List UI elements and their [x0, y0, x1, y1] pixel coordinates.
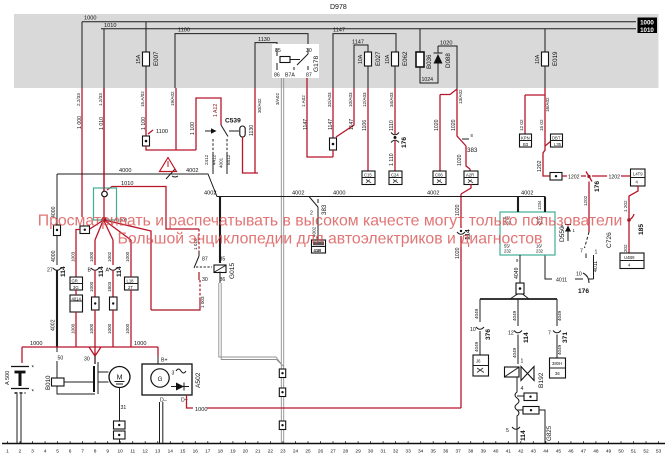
wire 1020 to box [457, 150, 470, 171]
connector 114 B [88, 240, 106, 334]
svg-text:19: 19 [230, 449, 236, 455]
svg-text:10: 10 [118, 449, 124, 455]
svg-text:13: 13 [155, 449, 161, 455]
svg-text:10A: 10A [535, 54, 541, 64]
lamp box E1 [362, 171, 375, 185]
svg-text:15.A/02: 15.A/02 [140, 91, 145, 107]
connector 371 [548, 331, 569, 359]
svg-text:4002: 4002 [427, 191, 439, 197]
connector 114 bottom [506, 427, 527, 441]
svg-text:17: 17 [205, 449, 211, 455]
wire 1202 mid [562, 175, 586, 181]
svg-text:1000: 1000 [640, 19, 654, 26]
svg-text:1 110: 1 110 [389, 153, 395, 166]
svg-text:176: 176 [594, 181, 601, 192]
svg-text:9: 9 [516, 258, 519, 263]
switch C539 [205, 118, 245, 138]
svg-text:4: 4 [44, 449, 47, 455]
switch C726 [580, 232, 613, 262]
svg-text:176: 176 [578, 288, 589, 295]
svg-text:M: M [117, 375, 123, 382]
svg-text:37: 37 [456, 449, 462, 455]
fuse E019 [535, 29, 559, 88]
splice box wavy 2 [517, 407, 545, 444]
svg-text:34: 34 [418, 449, 424, 455]
svg-text:1202: 1202 [537, 160, 543, 172]
wire 1010 link [107, 181, 199, 250]
svg-text:33: 33 [405, 449, 411, 455]
svg-text:GR: GR [72, 279, 78, 284]
relay G178 [272, 44, 320, 79]
svg-text:21: 21 [255, 449, 261, 455]
svg-text:1000: 1000 [125, 251, 130, 262]
svg-text:50: 50 [58, 356, 64, 362]
wire 1202 jog [537, 160, 550, 176]
component B036 [416, 52, 433, 69]
wire 4001 thick [219, 197, 221, 264]
splice 1147 [330, 138, 337, 157]
svg-text:376: 376 [485, 329, 492, 340]
svg-text:DBT: DBT [552, 136, 561, 141]
battery A500 [5, 365, 35, 396]
svg-text:J6: J6 [476, 359, 481, 364]
svg-text:383: 383 [467, 147, 478, 154]
svg-text:114: 114 [116, 266, 123, 277]
connector 114 mid [457, 229, 472, 240]
svg-text:27: 27 [330, 449, 336, 455]
fuse E062 [385, 51, 409, 88]
svg-text:A 500: A 500 [5, 371, 11, 385]
svg-text:32: 32 [393, 449, 399, 455]
svg-text:3G: 3G [73, 285, 79, 290]
svg-text:114: 114 [523, 332, 530, 343]
band background [14, 14, 659, 88]
svg-text:14: 14 [168, 449, 174, 455]
svg-text:L4T9: L4T9 [633, 172, 643, 177]
svg-text:1020: 1020 [434, 119, 440, 131]
svg-text:1100: 1100 [178, 28, 190, 34]
svg-text:46: 46 [568, 449, 574, 455]
wire 4049 drop 376 [474, 299, 480, 322]
relay B010 [45, 375, 95, 394]
svg-text:31: 31 [380, 449, 386, 455]
wire 4049 Y split [510, 294, 529, 299]
svg-text:B192: B192 [538, 372, 545, 388]
svg-text:52: 52 [643, 449, 649, 455]
wire 1202 to 185 [623, 186, 638, 256]
svg-text:176: 176 [401, 137, 408, 148]
svg-text:4: 4 [521, 386, 524, 392]
svg-text:24: 24 [293, 449, 299, 455]
splice on gray pair 2 [279, 388, 285, 397]
lamp box E3 [433, 171, 446, 185]
wire B036 feed [419, 29, 421, 52]
starter solenoid contact [84, 356, 109, 394]
svg-text:4000: 4000 [119, 168, 131, 174]
wire 1000 red drop [76, 88, 83, 217]
wire 50 B010 [57, 347, 63, 378]
svg-text:31: 31 [121, 405, 127, 411]
wire 31 motor ground [120, 388, 127, 422]
wire 1020 split [440, 89, 457, 171]
svg-text:1000: 1000 [195, 407, 207, 413]
splice boxes motor [114, 421, 126, 443]
splice box col1 [54, 225, 61, 236]
wire 1147 drop a [327, 88, 334, 138]
svg-text:47: 47 [581, 449, 587, 455]
svg-text:371: 371 [562, 332, 569, 343]
svg-text:1 003: 1 003 [200, 296, 205, 308]
svg-text:114: 114 [98, 266, 105, 277]
svg-text:C539: C539 [225, 118, 241, 125]
svg-text:114: 114 [60, 266, 67, 277]
wire 4049 D550 out [514, 255, 520, 283]
battery ground wires [17, 394, 21, 443]
bus 1147 a [333, 28, 396, 88]
wire 1000 drop left [81, 22, 83, 88]
wire E019 out split [519, 88, 551, 170]
wire col2 down [75, 290, 77, 347]
box 376 [473, 355, 489, 376]
wire 1106 drop [362, 88, 368, 171]
svg-text:185: 185 [638, 224, 645, 235]
svg-text:40: 40 [493, 449, 499, 455]
svg-text:4049: 4049 [512, 310, 517, 321]
svg-text:D–: D– [160, 398, 167, 404]
ecu D550 [500, 212, 566, 255]
wire D550 pin45 [517, 197, 519, 213]
svg-text:G: G [158, 376, 163, 383]
svg-text:29: 29 [355, 449, 361, 455]
svg-text:16/A02: 16/A02 [545, 97, 550, 112]
connector 176 top [389, 133, 408, 172]
svg-text:7: 7 [81, 449, 84, 455]
relay G015 [194, 229, 236, 283]
connector 114 right [508, 331, 530, 365]
svg-text:B036: B036 [426, 54, 433, 69]
svg-text:4002: 4002 [521, 191, 533, 197]
svg-text:45: 45 [556, 449, 562, 455]
svg-text:12: 12 [508, 331, 514, 337]
svg-text:4049: 4049 [557, 344, 562, 355]
svg-text:G015: G015 [229, 263, 236, 279]
svg-text:1 A02: 1 A02 [301, 95, 306, 107]
svg-text:4049: 4049 [474, 341, 479, 352]
bus 1000 [82, 16, 636, 22]
svg-text:10/A03: 10/A03 [348, 92, 353, 107]
svg-text:15 02: 15 02 [539, 119, 544, 131]
svg-text:4002: 4002 [51, 319, 57, 331]
box 185 [620, 253, 644, 269]
svg-text:1010: 1010 [104, 23, 116, 29]
svg-text:34/A03: 34/A03 [389, 92, 394, 107]
splice on gray pair 1 [279, 369, 285, 378]
svg-text:1147: 1147 [352, 39, 364, 45]
wire 4000 col1 [51, 174, 57, 225]
svg-text:D088: D088 [445, 53, 452, 68]
splice star 1000 [89, 197, 151, 310]
splice on gray pair 3 [279, 421, 285, 430]
svg-text:232: 232 [504, 249, 512, 254]
wire loop 1024 [420, 64, 438, 84]
splice box left [76, 226, 90, 277]
svg-text:1010: 1010 [121, 181, 133, 187]
svg-text:1000: 1000 [89, 281, 94, 292]
svg-text:B7A: B7A [285, 73, 295, 79]
svg-text:1000: 1000 [125, 323, 130, 334]
splice box 4049 [516, 283, 524, 294]
svg-text:1803: 1803 [107, 281, 112, 292]
svg-text:12/A03: 12/A03 [362, 92, 367, 107]
gray pair 3/A02 [275, 78, 284, 443]
fuse E027 [358, 51, 382, 66]
box col5 [125, 240, 139, 347]
wire D+ out [181, 395, 193, 408]
svg-text:4014: 4014 [72, 297, 82, 302]
wire 1010 drop left [103, 29, 105, 88]
svg-text:30: 30 [306, 48, 312, 54]
wire 4049 drop 114 [512, 299, 518, 326]
bus 1147 b [352, 39, 368, 88]
svg-text:42: 42 [518, 449, 524, 455]
wire 1003 G015 out [151, 280, 205, 310]
svg-text:E027: E027 [375, 51, 382, 66]
svg-text:8412: 8412 [226, 154, 231, 165]
svg-text:232: 232 [536, 249, 544, 254]
wire B+ alternator [158, 347, 168, 364]
svg-text:87: 87 [306, 73, 312, 79]
wire 1110 drop [389, 88, 395, 134]
wire 1130 to C539 [243, 88, 263, 173]
svg-text:85: 85 [220, 257, 226, 263]
svg-text:4002: 4002 [186, 168, 198, 174]
connector 376 [470, 327, 492, 355]
svg-text:1020: 1020 [455, 247, 461, 259]
svg-text:A2R: A2R [466, 173, 474, 178]
svg-text:50: 50 [618, 449, 624, 455]
svg-text:1000: 1000 [107, 323, 112, 334]
diode D088 [434, 46, 453, 68]
wire 8412 dashed [219, 139, 232, 174]
switch 383-2 [309, 197, 328, 241]
svg-text:26: 26 [318, 449, 324, 455]
svg-text:32/A03: 32/A03 [327, 92, 332, 107]
svg-text:1234: 1234 [537, 200, 542, 210]
wire 1020 long down [455, 184, 471, 228]
svg-text:8: 8 [471, 133, 474, 138]
splice box wavy 1 [517, 393, 537, 401]
svg-text:1130: 1130 [249, 125, 255, 136]
svg-text:10A: 10A [385, 54, 391, 64]
wire D- ground [160, 398, 167, 444]
svg-text:51: 51 [631, 449, 637, 455]
svg-text:Просматривать и распечатывать: Просматривать и распечатывать в высоком … [38, 213, 623, 230]
wire col1 mid [51, 236, 57, 266]
wire 4049 drop 371 [557, 299, 562, 326]
svg-text:1 000: 1 000 [77, 116, 83, 129]
svg-text:5: 5 [56, 449, 59, 455]
svg-text:C726: C726 [606, 232, 613, 248]
box col2 a [70, 277, 83, 290]
svg-text:35: 35 [431, 449, 437, 455]
svg-text:49: 49 [606, 449, 612, 455]
motor M [109, 367, 130, 388]
svg-text:4002: 4002 [292, 191, 304, 197]
svg-text:4001: 4001 [219, 157, 224, 168]
svg-text:1000: 1000 [30, 341, 42, 347]
wire 1202 C726 [583, 182, 589, 233]
svg-text:G825: G825 [546, 425, 553, 441]
wire 1020 right [451, 89, 463, 133]
wire 1202 right [592, 175, 631, 181]
splice 176 [586, 172, 601, 193]
wire 4011 rail [545, 255, 583, 284]
svg-text:11: 11 [130, 449, 135, 455]
rail 1000 D+ [195, 407, 461, 413]
svg-text:B3: B3 [523, 142, 529, 147]
svg-text:1000: 1000 [84, 16, 96, 22]
connector 114 27 [47, 266, 67, 277]
svg-text:1020: 1020 [440, 41, 452, 47]
box 1202 a [520, 134, 532, 147]
svg-text:4049: 4049 [512, 347, 517, 358]
connector 176 bottom [576, 272, 589, 296]
rail 4049 [480, 298, 557, 300]
fuse E007 [136, 51, 160, 66]
svg-text:30: 30 [368, 449, 374, 455]
teal highlight box [94, 188, 117, 220]
svg-text:30: 30 [84, 357, 90, 363]
svg-text:1000: 1000 [89, 251, 94, 262]
svg-text:1 A12: 1 A12 [213, 104, 219, 117]
svg-text:13/A02: 13/A02 [458, 89, 463, 104]
svg-text:G178: G178 [313, 56, 320, 72]
svg-text:15: 15 [180, 449, 186, 455]
svg-text:53: 53 [656, 449, 662, 455]
wire 1020 to rail [455, 236, 461, 408]
svg-text:48: 48 [593, 449, 599, 455]
svg-text:41: 41 [506, 449, 512, 455]
wire G178 87 drop [301, 78, 333, 157]
svg-text:27: 27 [47, 268, 53, 274]
svg-text:1147: 1147 [333, 28, 345, 34]
svg-text:23: 23 [280, 449, 286, 455]
gray pair G015 out [219, 283, 284, 367]
svg-text:4412: 4412 [212, 154, 217, 165]
bus 1130 [255, 37, 277, 88]
svg-text:9: 9 [106, 449, 109, 455]
wire 4002 thick col1 [51, 270, 58, 347]
svg-text:*: * [32, 365, 35, 372]
wire 1100 bus drop [170, 88, 176, 150]
svg-text:1000: 1000 [89, 323, 94, 334]
svg-text:B+: B+ [161, 358, 168, 364]
svg-text:2: 2 [19, 449, 22, 455]
svg-text:4011: 4011 [593, 261, 599, 272]
splice 1100 [143, 129, 169, 146]
lamp box E2 [389, 171, 402, 185]
svg-text:18: 18 [218, 449, 224, 455]
rail 1000 bottom [22, 341, 158, 347]
svg-text:380H: 380H [552, 361, 562, 366]
svg-text:20: 20 [243, 449, 249, 455]
svg-text:4049: 4049 [514, 267, 520, 279]
bus 1100 [175, 28, 308, 88]
svg-text:4000: 4000 [333, 191, 345, 197]
svg-text:36: 36 [443, 449, 449, 455]
svg-text:1: 1 [6, 449, 9, 455]
svg-text:3: 3 [172, 371, 175, 377]
svg-text:6: 6 [69, 449, 72, 455]
svg-text:1024: 1024 [422, 77, 434, 83]
wire 1010 red drop [98, 88, 105, 191]
svg-text:19/A02: 19/A02 [170, 91, 175, 106]
svg-text:4002: 4002 [204, 191, 216, 197]
valve B192 [505, 359, 546, 393]
svg-text:86: 86 [274, 73, 280, 79]
wire 1100 rail [146, 146, 196, 150]
svg-text:1106: 1106 [362, 120, 368, 131]
svg-text:1100: 1100 [156, 129, 168, 135]
svg-text:12 02: 12 02 [519, 119, 524, 131]
svg-text:1010: 1010 [640, 27, 654, 34]
wire 1100 fuse out [140, 88, 147, 136]
svg-text:1020: 1020 [457, 154, 463, 166]
svg-text:28: 28 [343, 449, 349, 455]
svg-text:39: 39 [481, 449, 487, 455]
svg-text:A502: A502 [195, 372, 202, 388]
svg-text:41B: 41B [314, 248, 322, 253]
svg-text:1003: 1003 [71, 251, 76, 262]
splice box col4 [110, 297, 118, 347]
lamp box E4 [464, 171, 478, 185]
wire wavy G825 [515, 377, 519, 443]
svg-text:30/A02: 30/A02 [257, 98, 262, 113]
svg-text:3: 3 [31, 449, 34, 455]
svg-text:1147: 1147 [328, 119, 334, 130]
svg-text:1110: 1110 [389, 120, 395, 131]
svg-text:10: 10 [576, 272, 582, 278]
svg-text:*: * [32, 389, 35, 396]
svg-text:L18: L18 [127, 279, 135, 284]
wire 2412 dashed [204, 139, 217, 174]
svg-text:5: 5 [506, 428, 509, 434]
svg-text:1147: 1147 [303, 119, 309, 130]
splice 185 [627, 214, 645, 235]
ruler ticks and numbers [6, 441, 661, 454]
svg-text:1 100: 1 100 [190, 122, 196, 135]
net tag 1000/1010 [638, 18, 658, 34]
svg-text:1130: 1130 [258, 37, 270, 43]
svg-text:1000: 1000 [134, 341, 146, 347]
warning triangle [160, 158, 177, 172]
svg-text:4000: 4000 [51, 250, 57, 262]
diode D550 input [561, 224, 576, 241]
svg-text:2412: 2412 [204, 154, 209, 165]
bus 1010 [101, 23, 636, 29]
svg-text:1202: 1202 [568, 175, 580, 181]
svg-text:10: 10 [470, 327, 476, 333]
wire 4011 [589, 261, 599, 279]
svg-text:7: 7 [580, 249, 583, 255]
svg-text:36: 36 [555, 371, 560, 376]
svg-text:1 100: 1 100 [141, 117, 147, 130]
svg-text:114: 114 [520, 430, 527, 441]
wire 1020 top [438, 41, 457, 90]
wire D550 pin42 [537, 197, 545, 213]
svg-text:E007: E007 [153, 51, 160, 66]
svg-text:16: 16 [193, 449, 199, 455]
